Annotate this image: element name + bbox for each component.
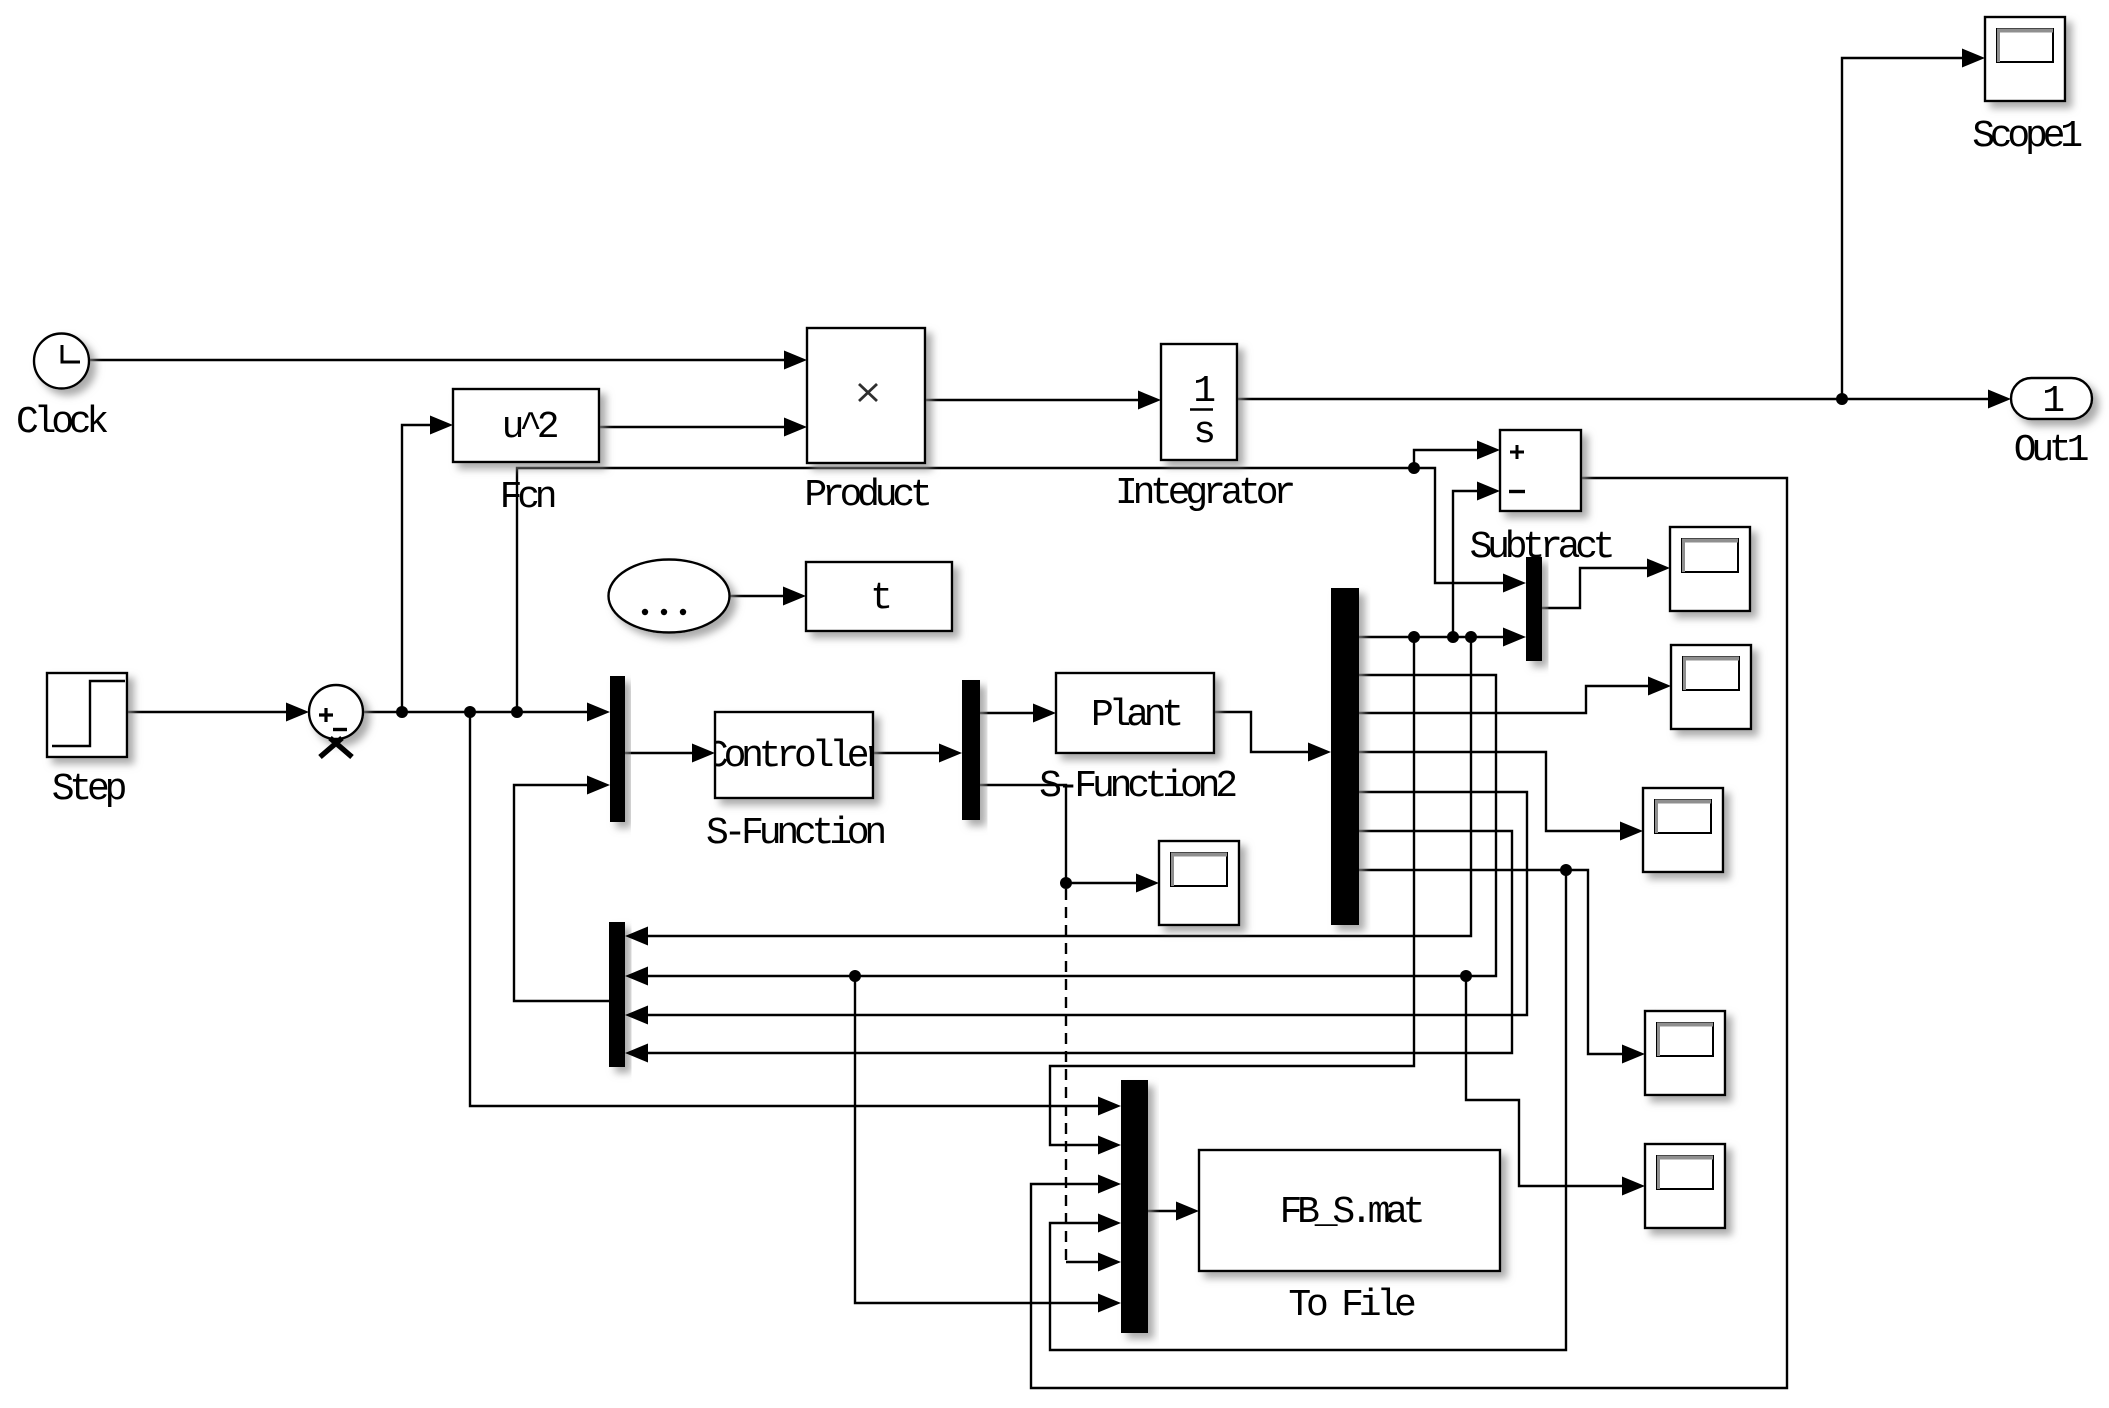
block Clock: [34, 334, 89, 389]
svg-text:To File: To File: [1288, 1284, 1415, 1327]
wire Controller output to Demux2 input: [873, 752, 941, 754]
arrow ToFileMux input4: [1098, 1214, 1121, 1233]
junction o1-c: [1465, 631, 1477, 643]
arrow ToFile input: [1176, 1202, 1199, 1221]
wire BigDemux output2 to FeedbackMux input2: [646, 675, 1496, 976]
junction e-subtract: [1408, 462, 1420, 474]
arrow SubtractMux input1: [1503, 574, 1526, 593]
block Sum: [309, 685, 363, 757]
arrow Plant input: [1033, 704, 1056, 723]
block Subtract: [1500, 430, 1581, 511]
block SubtractMux: [1526, 557, 1542, 661]
junction o1-b: [1447, 631, 1459, 643]
arrow ToFileMux input6: [1098, 1294, 1121, 1313]
svg-text:S-Function2: S-Function2: [1039, 765, 1236, 808]
svg-text:s: s: [1193, 411, 1213, 454]
arrow Out1 input: [1988, 390, 2011, 409]
junction integrator-out: [1836, 393, 1848, 405]
block Scope_s3: [1643, 788, 1723, 872]
wire BigDemux output1 to SubtractMux input2: [1359, 636, 1505, 638]
arrow Subtract plus input: [1477, 441, 1500, 460]
wire Plant output to BigDemux input: [1214, 712, 1310, 752]
svg-text:Clock: Clock: [16, 401, 107, 444]
arrow Scope1 input: [1962, 49, 1985, 68]
wire e-signal to SubtractMux input1: [1414, 468, 1505, 583]
block Integrator: [1161, 344, 1237, 460]
block FeedbackMux (flipped): [609, 922, 625, 1067]
wire Clock to Product input1: [89, 359, 786, 361]
wire output1 branch to FeedbackMux input1: [646, 637, 1471, 936]
wire BigDemux output6 to FeedbackMux input4: [646, 831, 1512, 1053]
wire branch to Scope1: [1842, 58, 1964, 399]
wire output1 branch to Subtract minus input: [1453, 491, 1479, 637]
wire BigDemux output7 to Scope4: [1359, 870, 1624, 1054]
arrow FeedbackMux input1: [625, 927, 648, 946]
block Scope_sf2: [1159, 841, 1239, 925]
svg-text:FB_S.mat: FB_S.mat: [1280, 1191, 1422, 1234]
arrow Sum input: [286, 703, 309, 722]
block Demux2: [962, 680, 980, 820]
wire ellipse to t block: [730, 595, 785, 597]
wire e-signal branch to Fcn input: [402, 425, 432, 712]
arrow ToFileMux input5: [1098, 1253, 1121, 1272]
wire BigDemux output5 to FeedbackMux input3: [646, 792, 1527, 1015]
wire FeedbackMux output to Mux1 input2: [514, 785, 609, 1001]
block Scope_s4: [1645, 1011, 1725, 1095]
block Scope_s5: [1645, 1144, 1725, 1228]
arrow Controller input: [692, 744, 715, 763]
svg-text:Integrator: Integrator: [1115, 472, 1293, 515]
block t (Goto): [806, 562, 952, 631]
arrow Mux1 input1: [587, 703, 610, 722]
block Controller (S-Function): [706, 712, 884, 798]
wire output7 branch to ToFileMux input4: [1050, 870, 1566, 1350]
block BigDemux: [1331, 588, 1359, 925]
wire e-signal branch to Subtract area (long line): [517, 468, 1414, 712]
wire BigDemux output4 to Scope3: [1359, 752, 1622, 831]
wire BigDemux output3 to Scope2: [1359, 686, 1650, 713]
arrow Scope_sf2 input: [1136, 874, 1159, 893]
arrow FeedbackMux input3: [625, 1006, 648, 1025]
wire Step output to Sum: [127, 711, 288, 713]
arrow BigDemux input: [1308, 743, 1331, 762]
wire Demux2 output2 to scope (y-signal): [980, 785, 1138, 883]
junction o7-tofile4: [1560, 864, 1572, 876]
arrow FeedbackMux input4: [625, 1044, 648, 1063]
junction e-down: [464, 706, 476, 718]
svg-text:u^2: u^2: [502, 406, 558, 449]
wire Sum output to Mux1 input1 (e-signal): [363, 711, 589, 713]
wire Integrator output to Out1: [1237, 398, 1990, 400]
junction e-Fcn: [396, 706, 408, 718]
wire Product output to Integrator input: [925, 399, 1140, 401]
junction o2-tofile6: [849, 970, 861, 982]
wire Demux2 output1 to Plant input: [980, 712, 1035, 714]
junction o2-scope5: [1460, 970, 1472, 982]
svg-text:Fcn: Fcn: [500, 476, 555, 519]
block Mux1: [610, 676, 625, 822]
svg-text:t: t: [870, 577, 889, 620]
block Step: [47, 673, 127, 757]
arrow SubtractMux input2: [1503, 628, 1526, 647]
wire dashed y-signal down to ToFileMux input5: [1065, 889, 1067, 1262]
arrow Demux2 input: [939, 744, 962, 763]
wire e-signal branch down to ToFileMux input1: [470, 712, 1100, 1106]
arrow Product input2: [784, 418, 807, 437]
arrow Product input1: [784, 351, 807, 370]
arrow ToFileMux input3: [1098, 1175, 1121, 1194]
arrow Mux1 input2: [587, 776, 610, 795]
svg-text:Plant: Plant: [1091, 694, 1180, 737]
svg-text:Step: Step: [52, 768, 126, 811]
wire Subtract output loop to ToFileMux input3: [1031, 478, 1787, 1388]
svg-text:Scope1: Scope1: [1972, 115, 2081, 158]
arrow Scope_s2 input: [1648, 677, 1671, 696]
arrow Integrator input: [1138, 391, 1161, 410]
wire output1 branch to ToFileMux input2: [1050, 637, 1414, 1145]
svg-text:Product: Product: [804, 474, 929, 517]
svg-text:Out1: Out1: [2014, 429, 2088, 472]
arrow Scope_s3 input: [1620, 822, 1643, 841]
junction o1-a: [1408, 631, 1420, 643]
block Product: [807, 328, 925, 463]
arrow Scope_s5 input: [1622, 1177, 1645, 1196]
junction y-scope: [1060, 877, 1072, 889]
block ToFile FB_S.mat: [1199, 1150, 1500, 1271]
block Scope_s2: [1671, 645, 1751, 729]
svg-text:Controller: Controller: [706, 735, 884, 778]
block Plant (S-Function2): [1056, 673, 1214, 753]
wire output2 branch to ToFileMux input6: [855, 976, 1100, 1303]
arrow Scope_s4 input: [1622, 1045, 1645, 1064]
wire ToFileMux output to ToFile block: [1148, 1210, 1178, 1212]
arrow Subtract minus input: [1477, 482, 1500, 501]
wire SubtractMux output to Scope_s1: [1542, 568, 1649, 608]
arrow FeedbackMux input2: [625, 967, 648, 986]
svg-text:S-Function: S-Function: [706, 812, 884, 855]
block Scope1: [1985, 17, 2065, 101]
block Fcn: [453, 389, 599, 462]
arrow Scope_s1 input: [1647, 559, 1670, 578]
wire output2 branch to Scope5: [1466, 976, 1624, 1186]
arrow ToFileMux input2: [1098, 1136, 1121, 1155]
block Out1: [2011, 378, 2092, 423]
arrow ToFileMux input1: [1098, 1097, 1121, 1116]
arrow t input: [783, 587, 806, 606]
junction e-right: [511, 706, 523, 718]
annotation ellipse ...: [609, 560, 730, 633]
block Scope_s1: [1670, 527, 1750, 611]
block ToFileMux: [1121, 1080, 1148, 1333]
wire e-signal to Subtract plus input: [1414, 450, 1479, 468]
arrow Fcn input: [430, 416, 453, 435]
wire Mux1 output to Controller input: [625, 752, 694, 754]
wire Fcn output to Product input2: [599, 426, 786, 428]
